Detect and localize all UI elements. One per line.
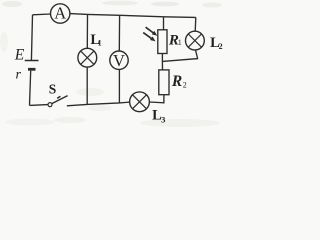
svg-text:3: 3 [161,114,165,124]
svg-text:A: A [54,4,66,23]
svg-text:1: 1 [178,38,182,47]
svg-text:S: S [49,81,57,96]
svg-text:V: V [113,51,125,70]
svg-text:2: 2 [219,42,223,51]
svg-text:R: R [171,73,182,90]
svg-text:E: E [14,47,25,64]
svg-text:2: 2 [183,81,187,90]
svg-text:1: 1 [98,39,102,48]
svg-text:r: r [16,68,22,83]
